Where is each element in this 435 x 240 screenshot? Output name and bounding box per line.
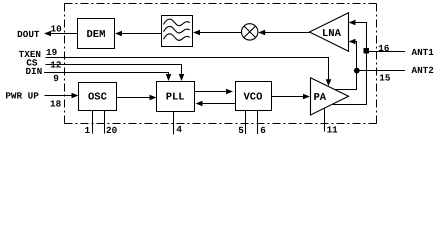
- svg-text:OSC: OSC: [88, 91, 108, 103]
- wire OSC to PLL: [117, 97, 152, 99]
- arrow into PLL (right): [150, 95, 157, 101]
- junction ANT2 (dot): [354, 68, 360, 74]
- wire ANT1 net to LNA upper input: [333, 23, 367, 105]
- wire filter to DEM: [119, 33, 162, 35]
- svg-text:15: 15: [379, 72, 391, 83]
- arrow feedback into PLL (left): [196, 101, 203, 107]
- svg-text:PA: PA: [314, 92, 327, 104]
- svg-text:11: 11: [327, 125, 339, 136]
- wire TXEN to PA: [46, 58, 329, 81]
- svg-text:DEM: DEM: [87, 29, 106, 41]
- svg-text:PLL: PLL: [166, 91, 185, 103]
- svg-text:18: 18: [50, 99, 62, 110]
- wire PWR UP to OSC: [45, 95, 74, 97]
- block DEM: [78, 19, 115, 49]
- arrow into VCO (right): [226, 89, 233, 95]
- svg-text:ANT1: ANT1: [412, 47, 435, 58]
- block PLL: [157, 82, 195, 112]
- pin wire PA out (pin 11): [324, 109, 326, 132]
- arrow into DEM (left): [115, 31, 122, 37]
- svg-text:PWR UP: PWR UP: [5, 91, 39, 102]
- wire ANT2 pin: [357, 70, 406, 72]
- mixer X1: [242, 24, 258, 40]
- svg-text:ANT2: ANT2: [412, 65, 435, 76]
- pin wire crystal (pin 20): [104, 111, 106, 134]
- wire PLL to VCO: [195, 91, 228, 93]
- pin wire VCO tank (pin 6): [257, 111, 259, 135]
- svg-text:20: 20: [106, 125, 118, 136]
- junction ANT1 (square): [364, 48, 370, 53]
- wire LNA to mixer: [264, 32, 311, 34]
- wire mixer to filter: [198, 32, 242, 34]
- svg-text:9: 9: [53, 73, 59, 84]
- svg-text:16: 16: [378, 43, 390, 54]
- wire ANT1 pin: [367, 51, 406, 53]
- svg-text:DIN: DIN: [25, 66, 42, 77]
- svg-text:19: 19: [46, 47, 58, 58]
- svg-text:LNA: LNA: [322, 28, 342, 40]
- block band-pass filter: [162, 16, 193, 47]
- wire DOUT to DEM: [50, 33, 78, 35]
- arrow DIN into PLL (down): [166, 74, 172, 81]
- svg-text:DOUT: DOUT: [17, 29, 40, 40]
- arrow into filter (left): [193, 30, 200, 36]
- wire VCO feedback to PLL: [201, 103, 236, 105]
- block VCO: [236, 82, 272, 111]
- arrow into LNA upper input: [349, 20, 356, 26]
- svg-text:4: 4: [176, 124, 182, 135]
- pin wire crystal (pin 1): [92, 111, 94, 134]
- dash-dot IC boundary box: [65, 4, 378, 124]
- arrow DOUT (left): [44, 31, 51, 37]
- amplifier PA: [311, 78, 349, 115]
- arrow into OSC (right): [72, 93, 79, 99]
- arrow into mixer (left): [258, 30, 265, 36]
- wire DIN to PLL: [44, 73, 169, 76]
- arrow into LNA lower input: [349, 39, 356, 45]
- svg-text:10: 10: [51, 24, 63, 35]
- arrow CS into PLL (down): [179, 74, 185, 81]
- block OSC: [79, 83, 117, 111]
- svg-text:VCO: VCO: [244, 91, 263, 103]
- arrow into PA (right): [303, 94, 310, 100]
- wire VCO to PA: [272, 96, 305, 98]
- pin wire PLL loop filter (pin 4): [173, 112, 175, 135]
- amplifier LNA: [310, 13, 349, 51]
- svg-text:6: 6: [260, 125, 266, 136]
- arrow TXEN into PA (down): [326, 79, 332, 86]
- svg-text:5: 5: [238, 125, 244, 136]
- wire CS to PLL: [46, 65, 182, 76]
- wire ANT2 net to LNA lower input: [335, 42, 356, 90]
- pin wire VCO tank (pin 5): [245, 111, 247, 135]
- svg-text:1: 1: [85, 125, 91, 136]
